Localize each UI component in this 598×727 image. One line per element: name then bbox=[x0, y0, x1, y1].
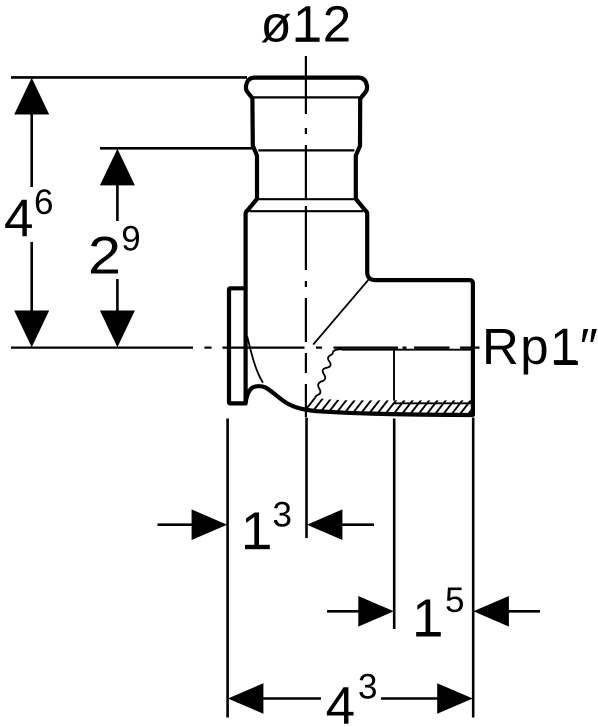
svg-text:6: 6 bbox=[34, 183, 53, 222]
extension line top bbox=[11, 76, 247, 79]
svg-text:4: 4 bbox=[4, 190, 33, 249]
extension line bottom left bbox=[226, 419, 229, 718]
press socket bead bbox=[246, 78, 367, 99]
chamfer diagonal bbox=[313, 280, 368, 345]
arrow up 2.9 bbox=[100, 149, 135, 186]
thread end line bbox=[393, 348, 395, 401]
bead bottom line bbox=[250, 96, 362, 98]
svg-text:Rp1″: Rp1″ bbox=[482, 318, 598, 375]
extension line bottom center bbox=[305, 418, 308, 539]
svg-text:1: 1 bbox=[241, 502, 270, 561]
arrow up 4.6 bbox=[14, 78, 49, 115]
dimension 2.9 line bbox=[116, 184, 119, 221]
arrow down 2.9 bbox=[100, 311, 135, 348]
extension line mid bbox=[100, 147, 252, 150]
thread line in hatch bbox=[394, 402, 471, 404]
svg-text:5: 5 bbox=[445, 581, 464, 620]
press zone line bbox=[258, 149, 354, 151]
dimension 4.3 bbox=[228, 683, 264, 714]
svg-text:1: 1 bbox=[412, 589, 441, 648]
dimension 1.5 bbox=[327, 610, 359, 613]
svg-text:2: 2 bbox=[88, 226, 121, 285]
horizontal centerline bbox=[11, 347, 480, 349]
section hatch bbox=[300, 394, 484, 417]
arrow down 4.6 bbox=[14, 311, 49, 348]
serif of digit 1 in dia 12 bbox=[296, 38, 320, 42]
extension line thread bbox=[393, 419, 396, 630]
left flange bbox=[229, 288, 246, 403]
svg-text:ø12: ø12 bbox=[260, 0, 352, 52]
svg-text:9: 9 bbox=[121, 219, 140, 258]
vertical centerline bbox=[305, 56, 307, 417]
socket step line bbox=[258, 198, 355, 200]
serif of digit 1 in Rp1 bbox=[555, 361, 578, 365]
inner bend curve bbox=[247, 336, 263, 382]
bore line bbox=[342, 349, 472, 351]
dimension 1.3 bbox=[158, 523, 194, 526]
svg-text:3: 3 bbox=[358, 668, 377, 707]
svg-text:3: 3 bbox=[273, 495, 292, 534]
body shoulder line bbox=[249, 210, 363, 212]
extension line bottom right bbox=[472, 418, 475, 718]
fitting body outline bbox=[246, 98, 473, 415]
dimension 4.6 line bbox=[30, 112, 33, 187]
svg-text:4: 4 bbox=[326, 677, 355, 727]
break wavy line bbox=[315, 349, 342, 398]
